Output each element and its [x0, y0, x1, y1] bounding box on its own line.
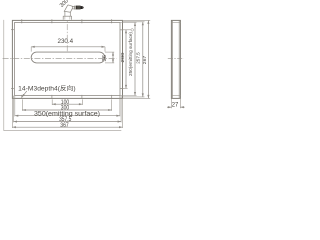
dim 230.4 extension right [104, 47, 106, 52]
side view inner line top [171, 22, 180, 24]
dim line 257.5 [142, 22, 144, 97]
emitting surface inner rectangle [15, 23, 121, 96]
ext bottom 100 right [81, 99, 83, 105]
plug barrel [76, 6, 81, 10]
ext 250 bottom [120, 95, 137, 97]
svg-text:367: 367 [60, 122, 69, 129]
dim line 36 [112, 52, 114, 63]
panel outer rectangle (front view) [12, 20, 122, 98]
dim 36 extension top [105, 51, 114, 53]
drawing frame left/bottom border [4, 20, 122, 131]
hole tick right 2 [120, 87, 123, 89]
dim line 200 [125, 30, 127, 89]
plug nub [83, 7, 84, 9]
ext 267 bottom [123, 97, 151, 99]
ext 200 bottom [120, 87, 128, 89]
hole tick left 1 [11, 29, 14, 31]
ext bottom 300 left [21, 99, 23, 110]
slot cutout [31, 52, 105, 63]
ext bottom 367 right [122, 98, 124, 128]
ext bottom 100 left [51, 99, 53, 105]
svg-text:27: 27 [172, 102, 179, 109]
ext 257.5 bottom [123, 96, 145, 98]
horizontal centerline [3, 58, 117, 60]
side view inner line bottom [171, 95, 180, 97]
ext 250 top [120, 22, 137, 24]
hole circle mark [131, 29, 134, 32]
hole tick bottom 1 [21, 95, 23, 99]
connector gland body [65, 11, 70, 16]
ext bottom 357.5 left [13, 96, 15, 123]
ext bottom 300 right [111, 99, 113, 110]
connector elbow boot [64, 5, 73, 12]
side view outer [171, 20, 180, 98]
side view centerline [168, 58, 184, 60]
side view inner line right [178, 20, 180, 98]
ext bottom 357.5 right [120, 96, 122, 123]
plug tip [81, 6, 83, 9]
ext bottom 367 left [11, 98, 13, 128]
connector pedestal [63, 16, 71, 20]
hole tick right 1 [120, 29, 123, 31]
dim 36 extension bottom [105, 62, 114, 64]
dim line 300 [22, 109, 111, 111]
ext 27 right [179, 99, 181, 109]
cable to plug [72, 6, 75, 9]
ext 27 left [170, 99, 172, 109]
hole tick top 1 [21, 19, 23, 23]
dim line 100 [52, 103, 82, 105]
dim 230.4 extension left [30, 47, 32, 52]
ext 267 top [123, 19, 151, 21]
plug barrel ribs [77, 6, 79, 10]
hole tick top 2 [51, 19, 53, 23]
ext 257.5 top [123, 21, 145, 23]
dim line 367 [12, 126, 122, 128]
dim line 267 [147, 20, 149, 98]
side view inner line left [172, 20, 174, 98]
connector pedestal inner steps [65, 16, 70, 19]
svg-text:230.4: 230.4 [58, 38, 74, 45]
svg-text:250(emitting surface): 250(emitting surface) [128, 31, 133, 76]
dim line 357.5 [14, 121, 122, 123]
plug collar [74, 6, 76, 9]
hole tick top 4 [111, 19, 113, 23]
svg-text:267: 267 [142, 55, 147, 64]
svg-text:200: 200 [120, 52, 125, 63]
svg-text:257.5: 257.5 [136, 52, 141, 64]
vertical centerline [66, 14, 68, 52]
hole tick bottom 2 [51, 95, 53, 99]
ext bottom 350 right [119, 96, 121, 117]
svg-text:36: 36 [102, 55, 108, 62]
dim line 230.4 [31, 46, 105, 48]
hole tick left 2 [11, 87, 14, 89]
ext bottom 350 left [14, 96, 16, 117]
hole tick bottom 3 [81, 95, 83, 99]
dim line 27 [167, 106, 171, 108]
dim line 250 [134, 23, 136, 96]
dim line 350 [15, 115, 120, 117]
label leader [22, 91, 27, 97]
ext 200 top [120, 29, 131, 31]
hole tick top 3 [81, 19, 83, 23]
hole tick bottom 4 [111, 95, 113, 99]
